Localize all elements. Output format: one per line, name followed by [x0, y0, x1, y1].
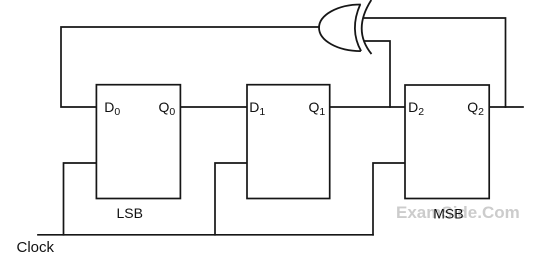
wire: Q1 to D2 [330, 106, 405, 108]
wire: Q2 output stub [489, 106, 523, 108]
wire: Q2 feedback up to XOR top input [365, 18, 506, 107]
wire: clock bus [38, 234, 373, 236]
flip-flop U0 (LSB) box [96, 85, 180, 199]
svg-text:LSB: LSB [117, 205, 143, 221]
flip-flop U2 (MSB) box [405, 85, 489, 199]
wire: Q0 to D1 [180, 106, 247, 108]
wire: clock riser to FF0 [64, 163, 97, 235]
wire: clock riser to FF2 [373, 163, 405, 235]
svg-text:MSB: MSB [433, 206, 463, 222]
XOR gate (left-facing) [319, 0, 371, 54]
wire: clock riser to FF1 [215, 163, 247, 235]
svg-text:Clock: Clock [17, 239, 55, 256]
wire: XOR output to D0 (top-left feedback) [61, 27, 319, 107]
flip-flop U1 box [247, 85, 330, 199]
wire: Q1 tap up to XOR bottom input [365, 41, 391, 107]
